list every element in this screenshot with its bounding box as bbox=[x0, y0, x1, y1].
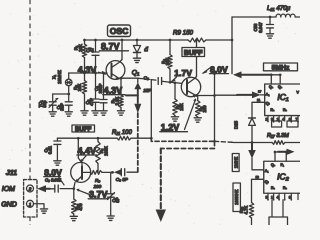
node top-supply junction bbox=[269, 16, 272, 19]
svg-text:11: 11 bbox=[257, 98, 260, 102]
resistor R3 2.2K bbox=[111, 78, 124, 110]
pin IC1 Qb stub bbox=[279, 75, 281, 84]
node rail-Q2 junction bbox=[195, 39, 198, 42]
svg-text:10K: 10K bbox=[78, 44, 83, 52]
resistor R5 15K bbox=[173, 83, 184, 117]
wire Q3 base feed bbox=[78, 138, 82, 166]
svg-text:2: 2 bbox=[28, 187, 32, 192]
arrow into buffer node bbox=[114, 169, 122, 175]
transistor Q3 bbox=[71, 162, 91, 188]
arrow clock into IC1 A1 bbox=[215, 90, 265, 99]
label 1.7V bbox=[171, 68, 192, 82]
ground under R5 bbox=[171, 117, 178, 121]
pin J11-2 bbox=[27, 185, 34, 192]
svg-text:R₁₁ 100: R₁₁ 100 bbox=[112, 130, 132, 136]
wire signal to C6 3P bbox=[127, 171, 138, 173]
node rail-R4 junction bbox=[169, 39, 172, 42]
wire base line bbox=[69, 72, 107, 74]
svg-text:390P: 390P bbox=[98, 83, 103, 93]
pin J11-1 bbox=[27, 200, 34, 207]
label 8.0V output bbox=[44, 167, 64, 184]
ground under C7 bbox=[107, 216, 114, 220]
svg-text:Qₙ: Qₙ bbox=[278, 85, 283, 89]
arrow IC2 top out bbox=[278, 149, 295, 155]
svg-text:D₁: D₁ bbox=[144, 46, 149, 51]
node supply-B junction bbox=[213, 72, 216, 75]
svg-text:8.7V: 8.7V bbox=[101, 42, 120, 52]
svg-text:1.2V: 1.2V bbox=[161, 122, 180, 132]
svg-text:IOM: IOM bbox=[2, 186, 15, 193]
svg-text:4.4V: 4.4V bbox=[78, 146, 97, 156]
wire Q1 emitter bbox=[119, 77, 138, 79]
wire GND pin bbox=[34, 204, 45, 209]
wire signal dashed down bbox=[137, 113, 139, 172]
svg-text:Qₜ: Qₜ bbox=[266, 101, 270, 105]
node Q3 emitter junction bbox=[72, 187, 75, 190]
node R11-feed junction bbox=[150, 137, 153, 140]
svg-text:C₆ 3P: C₆ 3P bbox=[116, 177, 129, 182]
pin IC1 Qd stub and wire bbox=[252, 102, 265, 118]
resistor R10 470 bbox=[72, 189, 84, 216]
resistor R9 100 (buffer) bbox=[90, 171, 114, 190]
resistor R17 3.3M bbox=[233, 133, 300, 144]
wire divider feed dashed bbox=[151, 138, 214, 141]
ground under R6 bbox=[194, 118, 201, 122]
diode D25 bbox=[234, 118, 256, 143]
block label 100KHz bbox=[233, 183, 240, 212]
capacitor C6 390P bbox=[94, 73, 107, 111]
svg-text:4.7K: 4.7K bbox=[243, 205, 248, 214]
resistor R9 150 (rail) bbox=[173, 30, 206, 42]
node D25-R17 junction bbox=[251, 141, 254, 144]
svg-text:4: 4 bbox=[277, 196, 279, 200]
inductor L11 470u bbox=[267, 5, 300, 17]
label 4.4V bbox=[77, 146, 97, 163]
svg-text:1MHZ: 1MHZ bbox=[233, 156, 238, 168]
transistor Q2 bbox=[181, 77, 200, 98]
block label BUFF top bbox=[182, 48, 205, 57]
arrow up to emitter node bbox=[134, 82, 141, 89]
wires under IC2 bbox=[272, 200, 283, 217]
node rail-C4 junction bbox=[94, 39, 97, 42]
svg-text:2: 2 bbox=[266, 118, 268, 122]
svg-text:15K: 15K bbox=[179, 103, 184, 111]
svg-text:50p: 50p bbox=[42, 100, 47, 108]
wire output path bbox=[161, 141, 215, 148]
capacitor C5 15P bbox=[143, 76, 170, 94]
svg-text:0.047: 0.047 bbox=[258, 22, 263, 33]
svg-text:100KHZ: 100KHZ bbox=[234, 189, 239, 205]
node rail-right junction bbox=[231, 39, 234, 42]
svg-text:OSC: OSC bbox=[110, 26, 129, 36]
resistor R11 100 bbox=[57, 130, 151, 140]
node base-C6 junction bbox=[102, 72, 105, 75]
svg-text:IC₂: IC₂ bbox=[277, 171, 290, 181]
arrow down signal bbox=[134, 104, 141, 113]
wire emitter tap x=151.3 bbox=[150, 80, 152, 139]
label 4.3V base bbox=[78, 65, 106, 75]
diode D1 zener bbox=[133, 40, 148, 58]
svg-text:6: 6 bbox=[289, 196, 291, 200]
svg-text:R₁₇ 3.3M: R₁₇ 3.3M bbox=[267, 133, 289, 139]
label 8.7V bbox=[100, 42, 129, 52]
svg-text:1.7V: 1.7V bbox=[174, 68, 192, 78]
svg-text:10K: 10K bbox=[77, 84, 82, 92]
svg-text:IC₁: IC₁ bbox=[277, 92, 289, 102]
svg-text:10MHZ: 10MHZ bbox=[57, 70, 62, 84]
svg-text:8.0V: 8.0V bbox=[44, 167, 62, 177]
label 8.0V collector bbox=[203, 64, 229, 74]
node B-feed junction bbox=[213, 140, 216, 143]
svg-text:1: 1 bbox=[29, 202, 32, 207]
ground under D1 bbox=[133, 58, 140, 62]
svg-text:BUFF: BUFF bbox=[184, 50, 203, 57]
wire signal corner bbox=[137, 78, 139, 82]
svg-text:3: 3 bbox=[266, 196, 268, 200]
svg-text:C₅: C₅ bbox=[144, 76, 149, 81]
svg-text:J11: J11 bbox=[6, 170, 17, 177]
svg-text:R9 150: R9 150 bbox=[173, 30, 194, 37]
node rail-R1 junction bbox=[83, 39, 86, 42]
strap under IC1 pins B bbox=[287, 121, 298, 127]
svg-text:1: 1 bbox=[271, 196, 273, 200]
svg-text:4.3V: 4.3V bbox=[78, 65, 97, 75]
node base-R1 junction bbox=[83, 72, 86, 75]
ground under C1 bbox=[65, 112, 72, 116]
svg-text:BUFF: BUFF bbox=[75, 126, 92, 133]
resistor R4 33K bbox=[161, 40, 172, 83]
node R11-R8 junction bbox=[97, 137, 100, 140]
wire feed to R17 bbox=[215, 141, 234, 142]
ground under C6 bbox=[100, 111, 107, 115]
svg-text:33P: 33P bbox=[60, 103, 65, 111]
arrow 1MHz down to IC2 bbox=[248, 143, 264, 170]
resistor R6 150 bbox=[196, 96, 207, 118]
node rail-Q1 junction bbox=[121, 39, 124, 42]
block label BUFF left bbox=[72, 125, 95, 133]
svg-text:100: 100 bbox=[94, 184, 102, 189]
block label OSC bbox=[108, 25, 131, 37]
trimmer capacitor C7 8P bbox=[108, 172, 120, 215]
IC U1 (IC1) box bbox=[265, 84, 303, 116]
svg-text:33K: 33K bbox=[165, 58, 170, 66]
svg-text:GND: GND bbox=[1, 202, 17, 209]
svg-text:4.3V: 4.3V bbox=[104, 85, 123, 95]
component box below IC2 bbox=[269, 217, 288, 225]
node buffer-out junction bbox=[111, 171, 114, 174]
node base-R4 junction bbox=[169, 81, 172, 84]
wire Q1 collector bbox=[121, 40, 123, 60]
node R11-Q3base junction bbox=[77, 137, 80, 140]
ground under C9 bbox=[54, 161, 61, 165]
ground under R3 bbox=[117, 111, 124, 115]
transistor Q1 bbox=[106, 60, 139, 81]
node base-R5 junction bbox=[174, 81, 177, 84]
arrow to J11 pin2 bbox=[37, 185, 55, 192]
wire trimmer link bbox=[53, 93, 69, 95]
label 1.2V bbox=[160, 98, 197, 132]
svg-text:8.0V: 8.0V bbox=[210, 64, 228, 74]
wire vertical B bbox=[214, 74, 216, 142]
connector J11 bbox=[6, 170, 37, 217]
svg-text:L₁₁ 470μ: L₁₁ 470μ bbox=[267, 5, 291, 12]
svg-text:100K: 100K bbox=[103, 146, 108, 156]
ground under R2 bbox=[81, 111, 88, 115]
node 5MHz-QB junction bbox=[279, 73, 282, 76]
IC U2 (IC2) box bbox=[264, 161, 303, 193]
svg-text:0.01: 0.01 bbox=[48, 145, 53, 154]
strap under IC1 pins A bbox=[272, 121, 282, 127]
pins IC1 bottom stubs bbox=[268, 116, 298, 121]
svg-text:2.2K: 2.2K bbox=[115, 96, 120, 105]
node crystal-bottom junction bbox=[67, 93, 70, 96]
svg-text:47P: 47P bbox=[89, 98, 94, 106]
svg-text:5MHz: 5MHz bbox=[272, 64, 290, 71]
node Q2 emitter junction bbox=[195, 94, 198, 97]
wire Q2 emitter line bbox=[196, 95, 214, 97]
capacitor C8 0.001 bbox=[45, 177, 74, 192]
resistor R55 4.7K bbox=[239, 203, 254, 226]
svg-text:17: 17 bbox=[258, 90, 262, 94]
resistor R2 10K bbox=[73, 73, 87, 111]
label 4.3V emitter bbox=[103, 85, 138, 95]
label 3.7V bbox=[76, 189, 108, 200]
ground under TC1 bbox=[49, 112, 56, 116]
capacitor C6 3P bbox=[116, 169, 129, 183]
wire C5 to Q2 base bbox=[170, 82, 182, 83]
pins IC2 top stubs bbox=[275, 152, 286, 161]
node emitter-R3 junction bbox=[120, 77, 123, 80]
svg-text:3.7V: 3.7V bbox=[89, 190, 108, 200]
capacitor C3 47P bbox=[85, 73, 99, 111]
wire supply drop x=232 bbox=[231, 17, 233, 74]
node 5MHz-QA junction bbox=[270, 73, 273, 76]
pin IC1 Qa stub bbox=[270, 75, 272, 84]
ground under R10 bbox=[70, 216, 77, 220]
arrow signal down-left big bbox=[156, 149, 166, 223]
block label 5MHz bbox=[264, 63, 298, 71]
svg-text:R₉: R₉ bbox=[95, 178, 100, 183]
svg-text:13: 13 bbox=[256, 175, 260, 179]
svg-text:4: 4 bbox=[282, 118, 284, 122]
wire 8.7V rail bbox=[85, 39, 233, 41]
capacitor C9 0.01 bbox=[44, 138, 61, 160]
svg-text:150: 150 bbox=[202, 105, 207, 113]
wire board-edge dashed bbox=[29, 0, 31, 179]
arrow 5MHz out bbox=[233, 71, 280, 78]
svg-text:8P: 8P bbox=[115, 197, 120, 202]
svg-text:D25: D25 bbox=[234, 120, 239, 129]
svg-text:Qₜ: Qₜ bbox=[265, 180, 269, 184]
capacitor C4 47 bbox=[85, 40, 99, 73]
capacitor C1 33P bbox=[56, 94, 72, 112]
node emitterline-B junction bbox=[213, 94, 216, 97]
resistor R1 10K bbox=[74, 40, 87, 73]
block label 1MHz bbox=[232, 154, 239, 172]
crystal X1 10MHz bbox=[52, 70, 73, 94]
wire top supply bbox=[232, 16, 276, 18]
node base-C4 junction bbox=[94, 72, 97, 75]
svg-text:Q₁: Q₁ bbox=[132, 70, 139, 77]
wire emitter to C5 bbox=[138, 78, 157, 80]
capacitor C56 0.047 bbox=[253, 17, 273, 34]
ground under C56 bbox=[266, 34, 273, 38]
node IC1 strap dots bbox=[273, 121, 275, 123]
ground at J11 bbox=[40, 209, 47, 213]
resistor R8 100K bbox=[96, 138, 109, 172]
pins IC2 bottom stubs bbox=[268, 193, 298, 199]
svg-text:470: 470 bbox=[78, 203, 83, 211]
svg-text:X₁: X₁ bbox=[52, 74, 57, 79]
pin IC2 Qd wire bbox=[252, 179, 264, 202]
node rail-D1 junction bbox=[136, 39, 139, 42]
wire Q2 collector bbox=[196, 40, 198, 77]
svg-text:47: 47 bbox=[89, 47, 94, 52]
ground under C3 bbox=[92, 111, 99, 115]
trimmer capacitor TC1 50p bbox=[38, 94, 58, 112]
